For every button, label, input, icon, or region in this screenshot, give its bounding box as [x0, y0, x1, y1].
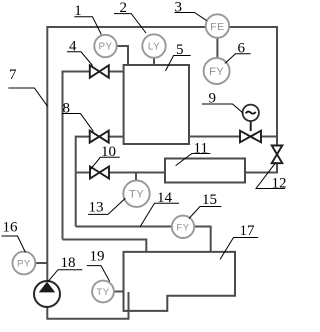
instrument PY 16: [13, 252, 36, 275]
wire main loop: top pipe, left pipe, right pipe: [47, 27, 277, 281]
label 6: [225, 41, 251, 64]
wire FE3-FY6 stem: [216, 38, 218, 59]
wire valve-4 branch horizontal: [63, 71, 124, 73]
tank 5: [124, 65, 189, 144]
svg-text:15: 15: [202, 192, 217, 208]
svg-text:12: 12: [272, 176, 287, 192]
svg-text:7: 7: [9, 67, 17, 83]
label 18: [48, 255, 83, 282]
svg-text:13: 13: [89, 199, 104, 215]
label 3: [175, 0, 207, 21]
wire PY16 stem: [35, 262, 47, 264]
wire pipe 14 to FY15 and down into tank17: [76, 227, 211, 253]
tank 17: [124, 252, 236, 311]
label 11: [176, 141, 211, 166]
wire PY1 stem: [116, 46, 128, 65]
svg-text:11: 11: [194, 141, 208, 157]
label 19: [87, 248, 110, 281]
svg-text:16: 16: [3, 220, 19, 236]
wire TY19 stem: [114, 291, 124, 293]
valve 10: [90, 167, 109, 179]
wire pipe to tank17 top: [63, 240, 147, 253]
control valve 9 actuator stem: [250, 121, 252, 131]
svg-text:19: 19: [90, 248, 105, 264]
label 13: [88, 198, 125, 215]
svg-text:18: 18: [61, 255, 76, 271]
svg-text:PY: PY: [98, 42, 112, 53]
wire pump outlet bottom pipe with riser into tank17: [47, 292, 128, 319]
label 10: [90, 144, 120, 170]
svg-text:17: 17: [240, 223, 256, 239]
svg-text:TY: TY: [129, 189, 144, 201]
wire tank5 outlet to valve 9 and right pipe: [189, 136, 277, 138]
valve 12: [272, 146, 283, 164]
label 16: [2, 220, 26, 253]
pump 18 impeller triangle: [39, 282, 55, 293]
instrument TY 19: [92, 281, 114, 303]
label 9: [202, 91, 243, 114]
instrument FE 3: [206, 14, 229, 37]
instrument TY 13: [123, 181, 149, 207]
instrument PY 1: [94, 35, 116, 57]
svg-text:TY: TY: [96, 287, 109, 298]
instrument FY 6: [204, 58, 230, 84]
label 2: [114, 0, 146, 33]
instrument FY 15: [172, 216, 194, 238]
control valve 9 body: [240, 131, 261, 143]
wire valve-8 branch horizontal: [76, 136, 124, 138]
label 8: [62, 100, 93, 131]
svg-text:FY: FY: [209, 66, 224, 78]
svg-text:LY: LY: [148, 42, 160, 53]
wire valve-10 branch to exchanger 11: [76, 172, 165, 174]
label 5: [166, 42, 191, 71]
label 14: [140, 190, 179, 227]
pump 18 circle: [34, 281, 60, 307]
label 1: [74, 3, 101, 35]
valve 8: [90, 131, 109, 143]
svg-text:PY: PY: [17, 259, 31, 270]
svg-text:3: 3: [175, 0, 183, 16]
svg-text:FY: FY: [176, 222, 189, 233]
control valve 9 actuator circle with tilde: [243, 105, 259, 121]
instrument LY 2: [142, 34, 165, 57]
label 17: [220, 223, 258, 260]
label 4: [67, 38, 93, 65]
label 12: [256, 162, 287, 191]
wire TY13 stem: [135, 173, 137, 182]
wire LY2 stem: [153, 57, 155, 65]
wire vertical x=75.7: [75, 136, 77, 227]
valve 4: [90, 65, 109, 77]
label 15: [189, 192, 221, 218]
heat exchanger 11: [165, 159, 245, 183]
label 7: [8, 67, 47, 106]
wire vertical x=62.5: [62, 71, 64, 240]
svg-text:FE: FE: [210, 21, 224, 33]
